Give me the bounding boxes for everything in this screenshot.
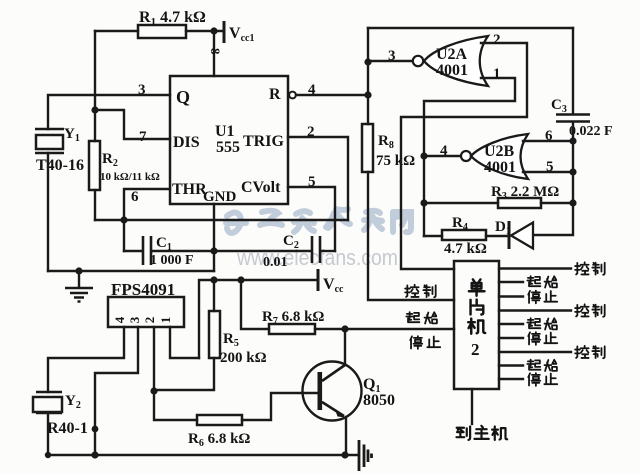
wire: Vcc feed rail — [199, 280, 318, 358]
wire: pin 8 of U1 from Vcc1 node — [213, 31, 215, 76]
wire: FPS pin 2 down to R6 — [154, 327, 197, 420]
node: DIS junction on x95 rail — [91, 106, 98, 113]
wire: x95 rail from R1 left down to R2 top — [94, 31, 96, 141]
svg-text:2: 2 — [471, 340, 480, 359]
svg-text:Q: Q — [176, 87, 190, 107]
svg-text:CVolt: CVolt — [241, 179, 281, 196]
wire: FPS pin 3 to bottom rail — [95, 327, 138, 455]
diode D1 — [508, 221, 511, 249]
wire: bottom ground rail — [48, 454, 357, 456]
wire: pin 2 TRIG stub down to THR net — [288, 137, 348, 220]
node: THR junction — [120, 216, 127, 223]
svg-text:3: 3 — [127, 316, 142, 323]
resistor R1 — [95, 30, 222, 32]
svg-text:6: 6 — [545, 128, 553, 144]
wire: top horizontal rail — [368, 27, 573, 29]
svg-text:R40-1: R40-1 — [47, 420, 88, 437]
node: R5 top junction — [210, 276, 217, 283]
svg-text:2: 2 — [307, 124, 315, 140]
svg-text:8050: 8050 — [363, 392, 395, 409]
wire: U1 pin 4 (R) with inversion bubble — [289, 92, 296, 99]
ground symbol (right, rotated) — [359, 440, 372, 471]
svg-text:1: 1 — [493, 66, 501, 82]
svg-text:FPS4091: FPS4091 — [111, 280, 175, 299]
wire: FPS pin 1 to Vcc rail corner — [170, 327, 199, 358]
label: kongzhi (out 1) — [575, 262, 605, 275]
node: U2A output junction — [364, 58, 371, 65]
power terminal Vcc1 — [223, 21, 226, 43]
wire: ground rail horizontal — [48, 270, 214, 272]
node: R7/collector junction — [341, 325, 348, 332]
label: qishi (out 8) — [527, 360, 557, 371]
transducer Y2 — [36, 392, 62, 413]
wire: Q1 emitter down to bottom rail — [345, 417, 347, 455]
svg-text:8: 8 — [208, 48, 223, 55]
svg-text:R: R — [269, 86, 281, 103]
svg-text:4001: 4001 — [436, 62, 468, 79]
wire: right reset rail x368 (top) — [367, 28, 369, 124]
svg-text:R7 6.8 kΩ: R7 6.8 kΩ — [262, 309, 324, 327]
wire: pin GND of U1 down — [213, 204, 215, 271]
svg-text:R1 4.7 kΩ: R1 4.7 kΩ — [139, 9, 206, 28]
wire: pin 5 CVolt stub down to C2 — [288, 187, 335, 251]
node: R3 right junction — [569, 199, 576, 206]
resistor R2 — [89, 141, 100, 190]
transducer Y1 — [35, 129, 64, 153]
svg-text:200 kΩ: 200 kΩ — [220, 350, 267, 366]
svg-text:6: 6 — [131, 189, 139, 205]
wire: R8 bottom down to MCU control line — [368, 172, 454, 300]
node: R7 top junction — [237, 276, 244, 283]
svg-text:7: 7 — [139, 129, 147, 145]
svg-text:1: 1 — [158, 317, 173, 324]
wire: U2A pin 1 route to U2B output rail — [424, 78, 515, 236]
capacitor C3 — [572, 28, 574, 113]
wire: U2B pin 6 to right rail — [523, 140, 573, 142]
wire: U2B pin 5 to right rail — [523, 171, 573, 173]
node: R3 left junction — [420, 199, 427, 206]
wire: right rail below C3 — [533, 123, 573, 235]
label: kongzhi (left) — [405, 285, 436, 298]
label: qishi (left) — [406, 312, 437, 323]
wire: pin 3 (Q output) to left rail — [48, 95, 170, 129]
label: kongzhi (out 4) — [575, 304, 605, 317]
wire: FPS pin 4 to Y2 top — [48, 327, 124, 392]
svg-text:1 000 F: 1 000 F — [150, 253, 194, 268]
ground symbol (earth) — [78, 271, 80, 287]
node: bottom rail junction — [91, 451, 98, 458]
svg-text:U2A: U2A — [436, 46, 468, 63]
svg-text:THR: THR — [172, 181, 207, 198]
svg-text:TRIG: TRIG — [243, 133, 284, 150]
wire: Y2 bottom to bottom rail — [47, 413, 49, 455]
label: kongzhi (out 7) — [575, 346, 605, 359]
wire: R2 bottom to THR net — [94, 190, 96, 220]
node: R5/R6 junction — [150, 387, 157, 394]
resistor R3 — [424, 202, 573, 204]
svg-text:GND: GND — [203, 189, 237, 205]
svg-text:DIS: DIS — [173, 134, 200, 151]
svg-text:75 kΩ: 75 kΩ — [376, 153, 415, 169]
svg-text:5: 5 — [308, 174, 316, 190]
svg-text:4.7 kΩ: 4.7 kΩ — [444, 241, 487, 257]
label: tingzhi (out 6) — [528, 332, 557, 345]
svg-text:U1: U1 — [215, 123, 235, 140]
svg-text:0.01: 0.01 — [263, 255, 288, 270]
svg-text:U2B: U2B — [484, 143, 515, 160]
svg-text:5: 5 — [546, 159, 554, 175]
wire: junction to MCU (start/stop line) — [345, 328, 454, 330]
label: tingzhi (out 9) — [528, 373, 557, 386]
op-amp U1 555 timer box — [170, 76, 288, 204]
wire: Q1 collector up to junction — [344, 329, 346, 365]
node: on pin3 drop — [92, 426, 99, 433]
svg-text:4: 4 — [112, 316, 127, 323]
node: Y2 bottom corner — [45, 452, 51, 458]
svg-text:4: 4 — [308, 82, 316, 98]
svg-text:2: 2 — [493, 32, 501, 48]
node: C1/C2 junction on GND rail — [210, 247, 217, 254]
svg-text:T40-16: T40-16 — [36, 157, 84, 174]
svg-text:4: 4 — [440, 143, 448, 159]
svg-text:R3 2.2 MΩ: R3 2.2 MΩ — [491, 184, 559, 202]
wire: MCU bottom pin to host — [471, 389, 473, 424]
node: R1 right junction — [210, 27, 217, 34]
IC FPS4091 box — [108, 297, 184, 327]
wire: MCU right pin row — [499, 269, 571, 380]
svg-text:3: 3 — [388, 48, 396, 64]
wire: pin 7 DIS — [95, 110, 170, 139]
svg-text:4001: 4001 — [484, 159, 516, 176]
resistor R4 — [424, 235, 507, 237]
capacitor C2 — [214, 250, 310, 252]
svg-text:R6 6.8 kΩ: R6 6.8 kΩ — [188, 431, 250, 449]
node: emitter/bottom rail — [341, 451, 348, 458]
wire: THR/TRIG net horizontal — [95, 219, 348, 221]
label: tingzhi (left) — [410, 336, 440, 349]
resistor R8 — [362, 124, 373, 172]
wire: pin 6 THR stub and C1 left drop — [124, 189, 170, 251]
svg-text:2: 2 — [142, 317, 157, 324]
gate U2A 4001 (left facing NOR) — [368, 60, 412, 62]
capacitor C1 — [143, 236, 151, 265]
svg-text:3: 3 — [138, 82, 146, 98]
node: U2B output junction — [420, 152, 427, 159]
wire: Y1 bottom to ground rail — [47, 153, 49, 271]
resistor R7 — [241, 280, 345, 329]
node: U1 pin4 junction — [364, 91, 371, 98]
svg-text:0.022 F: 0.022 F — [569, 124, 613, 139]
resistor R5 — [154, 280, 214, 390]
label: dao zhu ji (to host) — [456, 426, 507, 440]
svg-text:10 kΩ/11 kΩ: 10 kΩ/11 kΩ — [100, 171, 160, 183]
node: ground junction — [75, 267, 82, 274]
power terminal Vcc — [317, 269, 320, 291]
wire: U2A pin 2 route to MCU line — [401, 43, 527, 269]
gate U2B 4001 (left facing NOR) — [424, 155, 461, 157]
label: tingzhi (out 3) — [528, 291, 557, 304]
resistor R6 — [197, 415, 242, 425]
label: dan pian ji 2 vertical — [468, 279, 485, 333]
svg-text:555: 555 — [216, 139, 240, 156]
label: qishi (out 5) — [527, 318, 557, 329]
transistor Q1 8050 — [303, 362, 362, 421]
label: qishi (out 2) — [527, 276, 557, 287]
IC MCU (danpianji 2) box — [454, 261, 499, 389]
svg-text:www.elecfans.com: www.elecfans.com — [236, 245, 398, 270]
watermark: elecfans logo (light) — [226, 209, 411, 233]
